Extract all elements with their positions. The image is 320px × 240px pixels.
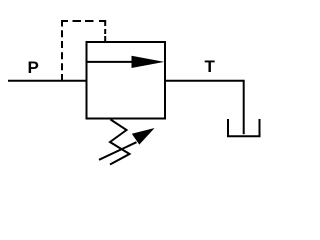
tank symbol bbox=[228, 119, 260, 136]
svg-text:T: T bbox=[205, 57, 216, 76]
pilot line dash corner top-left bbox=[62, 21, 68, 27]
svg-text:P: P bbox=[28, 58, 39, 77]
wire T line vertical to tank bbox=[243, 80, 245, 134]
pilot line top horizontal dashes bbox=[73, 20, 94, 22]
pilot line left vertical dashes bbox=[61, 30, 63, 81]
flow path arrow shaft inside valve bbox=[87, 61, 134, 63]
spring zigzag bbox=[110, 120, 130, 165]
pilot line right vertical dashes to box top bbox=[104, 29, 106, 43]
adjustment arrowhead bbox=[132, 128, 155, 145]
flow path arrowhead bbox=[132, 56, 165, 68]
pilot line dash corner top-right bbox=[99, 21, 105, 26]
wire T line horizontal bbox=[165, 80, 244, 82]
adjustment arrow shaft bbox=[99, 142, 137, 160]
wire P line bbox=[8, 80, 87, 82]
valve body box bbox=[87, 42, 166, 119]
